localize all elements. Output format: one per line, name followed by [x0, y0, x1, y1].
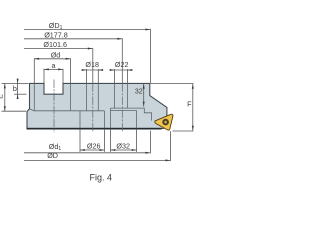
dim O101.6 line: [24, 48, 92, 50]
dim a line: [44, 68, 63, 70]
bore d right edge: [70, 83, 72, 110]
svg-text:Fig. 4: Fig. 4: [90, 172, 113, 182]
dim F: [192, 84, 194, 131]
dim b: [17, 79, 19, 99]
hole O22 right edge: [127, 83, 129, 108]
svg-text:Ø177.8: Ø177.8: [44, 31, 68, 40]
dim O22: [110, 69, 133, 71]
svg-text:Ø26: Ø26: [87, 142, 101, 151]
bottom face edge (thick): [27, 128, 162, 130]
dim 32: [143, 84, 145, 107]
dim O18: [82, 69, 103, 71]
counterbore O32 right edge: [136, 110, 138, 128]
svg-text:Ø22: Ø22: [115, 60, 129, 69]
counterbore O26 right edge: [103, 111, 105, 128]
flange step left: [30, 109, 105, 111]
svg-text:E: E: [0, 94, 5, 99]
svg-text:Ød: Ød: [51, 50, 61, 59]
centerline cutter axis: [53, 80, 55, 133]
dim OD line: [24, 159, 170, 161]
svg-text:F: F: [187, 99, 192, 108]
svg-text:ØD1: ØD1: [49, 21, 63, 31]
insert screw: [162, 119, 169, 126]
svg-text:Ø18: Ø18: [85, 60, 99, 69]
svg-text:32: 32: [135, 89, 143, 96]
hole O18 left edge: [86, 83, 88, 110]
svg-text:b: b: [13, 84, 17, 93]
bore d left edge: [33, 83, 35, 110]
dim O177.8 line: [24, 38, 122, 40]
dim Od1 line: [24, 152, 150, 154]
svg-text:ØD: ØD: [47, 151, 58, 160]
dim E: [4, 83, 6, 111]
dim O26: [80, 149, 104, 151]
dim Od line: [34, 58, 70, 60]
counterbore O26 left edge: [79, 111, 81, 128]
dim O32 holes: [111, 149, 137, 151]
counterbore O32 top: [111, 109, 137, 111]
svg-text:Ø32: Ø32: [116, 142, 130, 151]
svg-text:a: a: [52, 61, 56, 70]
centerline left hole: [92, 83, 94, 131]
hole O22 left edge: [114, 83, 116, 108]
counterbore O32 left edge: [110, 108, 112, 128]
seat step right: [111, 108, 152, 121]
dim OD1 line: [24, 29, 150, 31]
centerline right hole: [121, 83, 123, 131]
cutter body: [27, 83, 167, 128]
hole O18 right edge: [97, 83, 99, 110]
insert (carbide, yellow): [155, 114, 173, 130]
svg-text:Ø101.6: Ø101.6: [43, 40, 67, 49]
